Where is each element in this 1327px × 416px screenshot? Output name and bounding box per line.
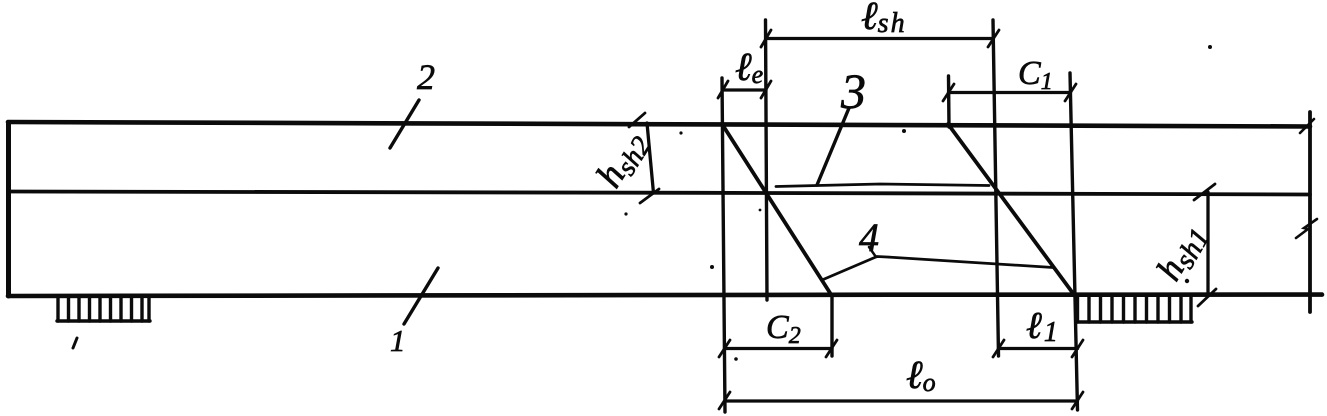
dimension line l_e: [723, 88, 766, 91]
extension line V4 (l_sh right / l_1 left): [993, 20, 999, 356]
beam left end edge: [6, 123, 11, 297]
extension line V6 (c_2 right): [830, 295, 833, 356]
leader for label 3: [817, 108, 849, 185]
leader for label 4: [869, 247, 876, 257]
left support hatching: [57, 296, 150, 321]
svg-text:4: 4: [859, 215, 879, 260]
svg-text:1: 1: [390, 323, 406, 358]
leader for label 1: [404, 268, 438, 324]
leader for label 2: [390, 100, 419, 148]
svg-text:3: 3: [840, 63, 866, 119]
beam top edge: [8, 122, 1310, 127]
crack 4 (polyline crack in lower zone): [822, 257, 1053, 281]
svg-text:2: 2: [417, 57, 435, 97]
dimension line l_1: [999, 347, 1078, 350]
dimension line l_o: [725, 399, 1078, 402]
right support hatching: [1077, 296, 1192, 322]
inclined crack right (under c_1): [948, 124, 1075, 296]
dimension line c_2: [725, 347, 832, 350]
extension line V1 (left of l_e, c_2, l_o): [722, 78, 725, 412]
stray comma mark below left support: [73, 338, 77, 348]
extension line V2 (l_sh left / l_e right): [766, 20, 768, 300]
crack 3 (horizontal crack above middle line): [776, 184, 989, 187]
beam bottom edge: [8, 295, 1322, 296]
tick at top right corner: [1300, 119, 1314, 133]
break mark on right cut edge: [1296, 219, 1317, 238]
extension line V5 (c_1 / l_1 / l_o right): [1070, 73, 1078, 410]
dimension line l_sh: [766, 37, 993, 40]
dimension line h_sh2 (vertical): [647, 123, 654, 193]
dimension line h_sh1 (vertical): [1206, 192, 1209, 296]
dimension line c_1: [949, 91, 1071, 94]
extension line V3 (c_1 left): [947, 76, 951, 127]
beam middle chord line: [8, 192, 1310, 195]
stray scan dots: [624, 45, 1212, 361]
beam right end edge (cut): [1308, 112, 1312, 312]
inclined crack left (under l_e): [722, 124, 832, 296]
